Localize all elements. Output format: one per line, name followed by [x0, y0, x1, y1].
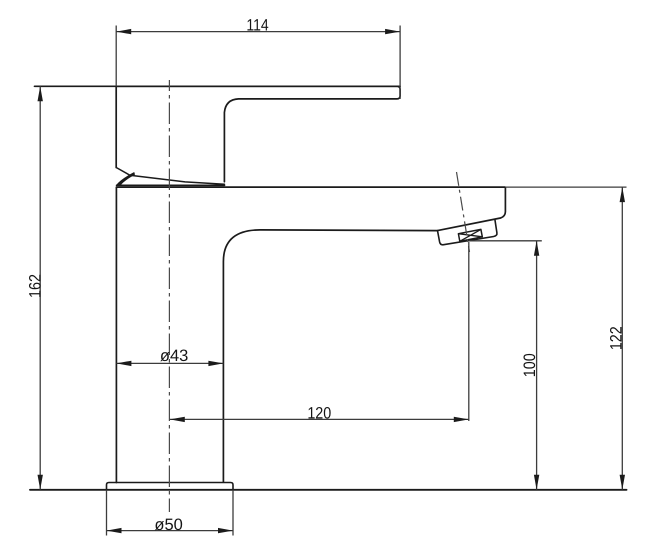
dimension 114 line	[116, 26, 400, 100]
aerator screen rectangle	[458, 229, 482, 241]
base flange	[107, 483, 234, 490]
dimension 100 arrows	[534, 241, 539, 490]
dimension 100 line	[469, 241, 542, 490]
body column left edge	[115, 187, 117, 482]
svg-text:ø43: ø43	[160, 347, 188, 365]
dimension 120 arrows	[170, 417, 469, 422]
dimension 122 line	[505, 187, 626, 490]
vertical centerline	[168, 80, 170, 512]
handle top edge with left extension	[35, 85, 401, 87]
svg-text:122: 122	[607, 326, 625, 350]
handle seat line	[117, 184, 225, 186]
dimension 162 line	[39, 86, 41, 489]
dimension dia43 line	[116, 362, 223, 364]
handle lever outline	[116, 86, 400, 182]
handle base wedge	[116, 168, 224, 185]
svg-text:162: 162	[27, 274, 45, 298]
aerator centerline	[457, 172, 470, 252]
handle base beak	[117, 173, 135, 186]
svg-text:ø50: ø50	[154, 516, 182, 534]
svg-text:114: 114	[246, 16, 268, 34]
dimension dia50 line	[107, 490, 234, 536]
dimension 122 arrows	[620, 187, 625, 490]
aerator screen cross	[458, 229, 482, 241]
dimension dia43 arrows	[116, 361, 223, 366]
body and spout right outline	[223, 187, 505, 482]
body top line	[116, 186, 505, 188]
aerator ring	[438, 220, 497, 245]
handle left edge	[115, 86, 117, 167]
svg-text:100: 100	[521, 353, 539, 377]
dimension 162 arrows	[38, 86, 43, 489]
svg-text:120: 120	[307, 405, 331, 423]
dimension dia50 arrows	[107, 528, 234, 533]
ground line	[30, 489, 627, 491]
dimension 120 line	[170, 242, 469, 421]
dimension 114 arrows	[116, 29, 400, 34]
